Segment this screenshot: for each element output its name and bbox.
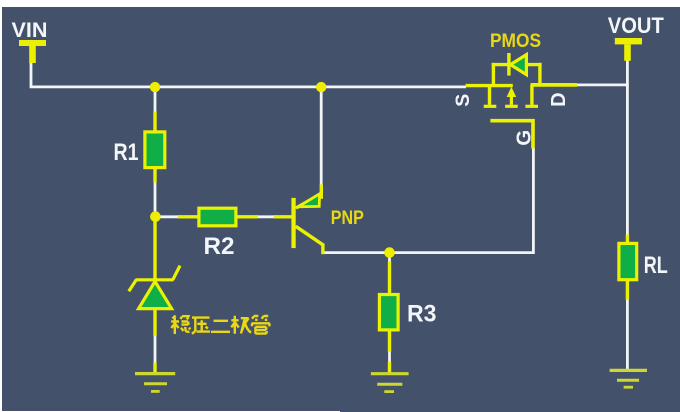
ground symbol RL [610, 370, 647, 387]
svg-text:R3: R3 [407, 301, 437, 328]
lead R3 bottom [388, 329, 391, 353]
transistor PMOS pass element [484, 53, 542, 106]
label VOUT [608, 13, 665, 38]
wire zener anode to ground [154, 333, 157, 365]
svg-text:R2: R2 [204, 233, 235, 260]
junction dot rail-PNP emitter [316, 82, 326, 92]
junction dot node A [150, 211, 161, 222]
resistor R3 [379, 295, 398, 330]
wire VOUT terminal down to RL [626, 59, 629, 237]
lead R2 left [178, 215, 201, 218]
wire R1 bottom to node A [154, 180, 157, 214]
ground symbol left [135, 363, 175, 392]
lead R1 bottom [153, 167, 156, 183]
lead RL top [626, 235, 629, 246]
wire R2 to PNP base [256, 215, 276, 218]
lead R1 top [153, 112, 156, 134]
lead PMOS drain [531, 83, 578, 87]
svg-text:R1: R1 [114, 139, 139, 166]
svg-text:VIN: VIN [12, 18, 48, 42]
svg-text:PNP: PNP [331, 207, 364, 229]
wire node A to R2 [158, 215, 180, 218]
svg-text:VOUT: VOUT [608, 13, 665, 38]
lead PMOS source [466, 84, 513, 87]
wire PNP collector to gate riser [323, 148, 534, 253]
label VIN [12, 18, 48, 42]
lead R3 top [388, 262, 391, 297]
label zener (stabilivolt diode) [171, 316, 270, 335]
pin label S [452, 94, 474, 107]
zener diode D1 [129, 266, 180, 309]
resistor RL [619, 243, 637, 279]
svg-text:G: G [513, 130, 536, 146]
label PMOS [490, 31, 541, 52]
wire PNP emitter to rail [320, 87, 323, 186]
wire R1 top to rail [154, 87, 157, 113]
lead PMOS gate [490, 121, 533, 149]
label R3 [407, 301, 437, 328]
wire R3 to ground [388, 350, 391, 364]
label PNP [331, 207, 364, 229]
ground symbol R3 [371, 362, 409, 392]
pin label G [513, 130, 536, 146]
lead zener anode [153, 308, 156, 336]
lead R2 right [235, 215, 258, 218]
terminal VIN [19, 40, 46, 63]
resistor R1 [145, 132, 165, 168]
terminal VOUT [615, 38, 642, 61]
lead RL bottom [626, 279, 629, 301]
transistor Q1 PNP [291, 184, 323, 254]
pin label D [548, 92, 570, 106]
label RL [644, 252, 668, 279]
wire PMOS drain to VOUT [575, 84, 629, 87]
wire RL to ground [626, 298, 629, 369]
wire VIN terminal to input rail [31, 61, 466, 87]
wire zener cathode to node A [153, 219, 156, 281]
svg-text:RL: RL [644, 252, 668, 279]
lead PNP base [274, 215, 293, 218]
svg-text:PMOS: PMOS [490, 31, 541, 52]
junction dot rail-R1 [150, 82, 160, 92]
label R2 [204, 233, 235, 260]
resistor R2 [199, 208, 236, 226]
svg-text:S: S [452, 94, 474, 107]
junction dot node B [384, 247, 395, 258]
wire node B to R3 [388, 253, 391, 265]
svg-text:D: D [548, 92, 570, 106]
label R1 [114, 139, 139, 166]
